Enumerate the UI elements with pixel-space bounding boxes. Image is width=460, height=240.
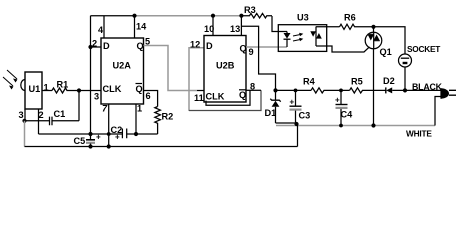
wire VDD rail vertical bbox=[90, 16, 92, 140]
node Q1 top bbox=[371, 25, 375, 29]
svg-text:R5: R5 bbox=[351, 77, 363, 87]
wire U1 pin3 drop bbox=[24, 109, 26, 121]
wire feedback bottom bbox=[189, 90, 261, 110]
resistor R6 bbox=[340, 24, 374, 29]
resistor R2 bbox=[155, 107, 161, 135]
svg-text:U1: U1 bbox=[29, 84, 41, 94]
wire pin1 drop bbox=[135, 104, 137, 134]
node pin10 top bbox=[211, 14, 215, 18]
svg-text:R2: R2 bbox=[162, 112, 174, 122]
svg-text:2: 2 bbox=[39, 110, 44, 120]
svg-text:2: 2 bbox=[92, 39, 97, 49]
svg-text:CLK: CLK bbox=[206, 92, 225, 102]
flip-flop U2A bbox=[101, 38, 144, 104]
top rail black bbox=[91, 15, 135, 17]
wire pin7 drop bbox=[108, 104, 110, 147]
svg-text:Q: Q bbox=[136, 84, 143, 94]
wire C2 row to U1 pin2 bbox=[39, 133, 123, 135]
resistor R1 bbox=[52, 88, 79, 93]
wire white stub bbox=[435, 97, 441, 126]
node Q1 bottom bbox=[371, 123, 375, 127]
wire U1 pin2 drop bbox=[38, 109, 40, 134]
svg-text:D1: D1 bbox=[265, 108, 277, 118]
svg-text:Q: Q bbox=[239, 90, 246, 100]
svg-text:U2B: U2B bbox=[216, 61, 235, 71]
wire pin9 Q out (gray) bbox=[246, 46, 287, 48]
wire gray drop to bottom rail bbox=[24, 121, 26, 147]
svg-text:+: + bbox=[335, 96, 340, 105]
resistor R4 bbox=[311, 88, 350, 93]
wire R3 to LED bbox=[272, 16, 287, 32]
node C3 top bbox=[294, 89, 298, 93]
flip-flop U2B bbox=[204, 36, 246, 103]
wire triac bottom / gate bbox=[316, 46, 370, 52]
diode D1 bbox=[270, 99, 280, 102]
svg-text:10: 10 bbox=[204, 24, 214, 34]
optocoupler U3 box bbox=[278, 25, 326, 52]
light arrows bbox=[3, 70, 18, 90]
svg-text:1: 1 bbox=[44, 83, 49, 93]
wire pin4 drop bbox=[103, 16, 105, 38]
node D pin2 junction bbox=[88, 45, 92, 49]
svg-text:BLACK: BLACK bbox=[412, 82, 443, 92]
svg-text:14: 14 bbox=[136, 22, 147, 32]
bottom rail bbox=[25, 146, 298, 148]
wire pin10 drop bbox=[212, 16, 214, 36]
node C4 bottom bbox=[339, 124, 343, 128]
node C4 top bbox=[339, 89, 343, 93]
svg-text:R1: R1 bbox=[57, 80, 69, 90]
node C5 rail junction bbox=[88, 132, 92, 136]
resistor R3 bbox=[241, 13, 272, 18]
wire pin2 tick bbox=[91, 46, 102, 48]
white rail (gray) bbox=[276, 125, 435, 127]
node pin3 junction bbox=[22, 119, 26, 123]
photosensor U1 bbox=[25, 72, 42, 109]
svg-text:C1: C1 bbox=[54, 109, 66, 119]
node C1/CLK junction bbox=[77, 88, 81, 92]
svg-text:C5: C5 bbox=[74, 136, 86, 146]
node pin7 bottom bbox=[107, 144, 111, 148]
main dc row wire bbox=[276, 89, 312, 91]
svg-text:R4: R4 bbox=[303, 77, 316, 87]
wire pin13 drop bbox=[240, 16, 242, 36]
node C5 bottom bbox=[88, 144, 92, 148]
capacitor C3 bbox=[295, 90, 297, 105]
svg-text:8: 8 bbox=[250, 82, 255, 92]
diode D2 bbox=[385, 87, 387, 93]
wire pin5 Q out (gray) bbox=[144, 46, 198, 91]
wire pin6 to R2 bbox=[144, 91, 158, 107]
svg-text:1: 1 bbox=[137, 104, 142, 114]
svg-text:D2: D2 bbox=[383, 76, 395, 86]
capacitor C2 bbox=[122, 129, 126, 139]
svg-text:C3: C3 bbox=[299, 111, 311, 121]
node pin7 C2 row junction bbox=[107, 132, 111, 136]
capacitor C4 bbox=[340, 90, 342, 104]
LED arrows bbox=[293, 33, 303, 41]
phototriac in U3 bbox=[315, 27, 317, 47]
U1 pin 1 wire bbox=[42, 90, 52, 92]
svg-text:CLK: CLK bbox=[103, 84, 122, 94]
svg-text:C4: C4 bbox=[341, 110, 354, 120]
ac plug bbox=[440, 88, 442, 98]
node C3 bottom bbox=[294, 122, 298, 126]
wire U2B D feedback (gray) bbox=[189, 48, 204, 111]
LED in U3 bbox=[286, 32, 288, 34]
wire D1 bottom to C3 node bbox=[276, 122, 297, 124]
node pin14 top bbox=[132, 14, 136, 18]
socket symbol bbox=[399, 54, 412, 67]
svg-text:5: 5 bbox=[145, 37, 150, 47]
top rail gray bbox=[135, 15, 242, 17]
svg-text:7: 7 bbox=[102, 104, 108, 114]
svg-text:D: D bbox=[103, 41, 110, 51]
svg-text:13: 13 bbox=[230, 24, 240, 34]
wire D2 to plug bbox=[392, 89, 441, 91]
svg-text:+: + bbox=[290, 98, 295, 107]
capacitor C1 bbox=[50, 117, 53, 126]
svg-text:6: 6 bbox=[146, 91, 151, 101]
wire R1 to U2A CLK bbox=[79, 90, 101, 92]
svg-text:Q1: Q1 bbox=[380, 47, 392, 57]
wire pin13 node to D1 bbox=[241, 26, 275, 100]
svg-text:11: 11 bbox=[194, 93, 204, 103]
svg-text:SOCKET: SOCKET bbox=[407, 44, 440, 54]
svg-text:9: 9 bbox=[249, 47, 254, 57]
svg-text:4: 4 bbox=[98, 25, 104, 35]
wire bottom rail riser bbox=[297, 124, 299, 147]
wire R6 to socket bbox=[374, 27, 406, 54]
svg-text:Q: Q bbox=[240, 44, 247, 54]
svg-text:+: + bbox=[115, 133, 120, 142]
node pin13 top bbox=[239, 14, 243, 18]
wire CLK stub U2B bbox=[197, 90, 204, 92]
svg-text:+: + bbox=[96, 133, 101, 142]
node D1 top bbox=[273, 88, 277, 92]
svg-text:12: 12 bbox=[190, 40, 200, 50]
node pin1/C2 bbox=[134, 132, 138, 136]
svg-text:R3: R3 bbox=[244, 5, 256, 15]
svg-text:U3: U3 bbox=[297, 13, 309, 23]
svg-text:3: 3 bbox=[94, 92, 99, 102]
wire pin14 drop bbox=[134, 16, 136, 38]
svg-text:3: 3 bbox=[19, 110, 24, 120]
svg-text:D: D bbox=[206, 41, 213, 51]
triac Q1 bbox=[365, 32, 382, 49]
svg-text:Q: Q bbox=[137, 41, 144, 51]
capacitor C5 bbox=[86, 139, 95, 141]
wire inner stub to bottom pin bbox=[206, 90, 250, 105]
wire R2 bottom to C2 bbox=[127, 133, 158, 135]
svg-text:R6: R6 bbox=[344, 13, 356, 23]
svg-text:WHITE: WHITE bbox=[406, 129, 432, 139]
node socket bottom bbox=[403, 88, 407, 92]
svg-text:U2A: U2A bbox=[113, 61, 132, 71]
wire Q-bar pin8 tick bbox=[246, 89, 261, 91]
wire triac top to R6 bbox=[316, 26, 340, 28]
wire C1 row bbox=[24, 120, 79, 122]
resistor R5 bbox=[350, 88, 386, 93]
wire C1 riser bbox=[78, 91, 80, 121]
